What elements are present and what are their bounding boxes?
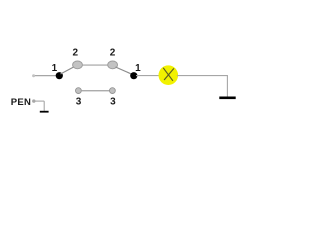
lamp E1 cross stroke 2 <box>164 68 174 80</box>
switch S2 arm (2 to 1) <box>116 67 133 75</box>
wire: left supply lead into S1 <box>34 75 58 77</box>
svg-text:1: 1 <box>52 63 58 74</box>
wire: lamp to ground, horizontal run <box>177 75 228 77</box>
wire: S2 common to lamp <box>136 75 159 77</box>
ground symbol (earth bar) PEN <box>40 111 49 113</box>
wire: top traveler between contacts 2 <box>82 64 108 66</box>
svg-text:2: 2 <box>110 48 116 59</box>
switch S2 contact pin 2 <box>108 61 118 69</box>
wire: PEN stub horizontal <box>35 100 44 102</box>
switch S2 common node, pin 1 <box>130 72 137 79</box>
svg-text:3: 3 <box>76 97 82 108</box>
lamp E1 cross stroke 1 <box>163 68 173 81</box>
wire: lamp to ground, vertical drop <box>226 76 228 97</box>
ground symbol (earth bar) right <box>219 97 235 100</box>
switch S1 contact pin 2 <box>73 61 83 69</box>
node: left lead terminal pin <box>32 74 35 77</box>
lamp E1 body <box>159 65 179 85</box>
switch S1 arm (1 to 2) <box>61 66 76 74</box>
switch S1 common node, pin 1 <box>56 72 63 79</box>
svg-text:PEN: PEN <box>11 97 31 108</box>
wire: PEN stub vertical <box>43 101 45 111</box>
svg-text:1: 1 <box>135 63 141 74</box>
PEN terminal pin dot <box>32 99 35 102</box>
svg-text:3: 3 <box>110 97 116 108</box>
switch S1 contact pin 3 <box>76 88 82 94</box>
svg-text:2: 2 <box>73 48 79 59</box>
switch S2 contact pin 3 <box>110 88 116 94</box>
wire: bottom traveler between contacts 3 <box>81 90 110 92</box>
